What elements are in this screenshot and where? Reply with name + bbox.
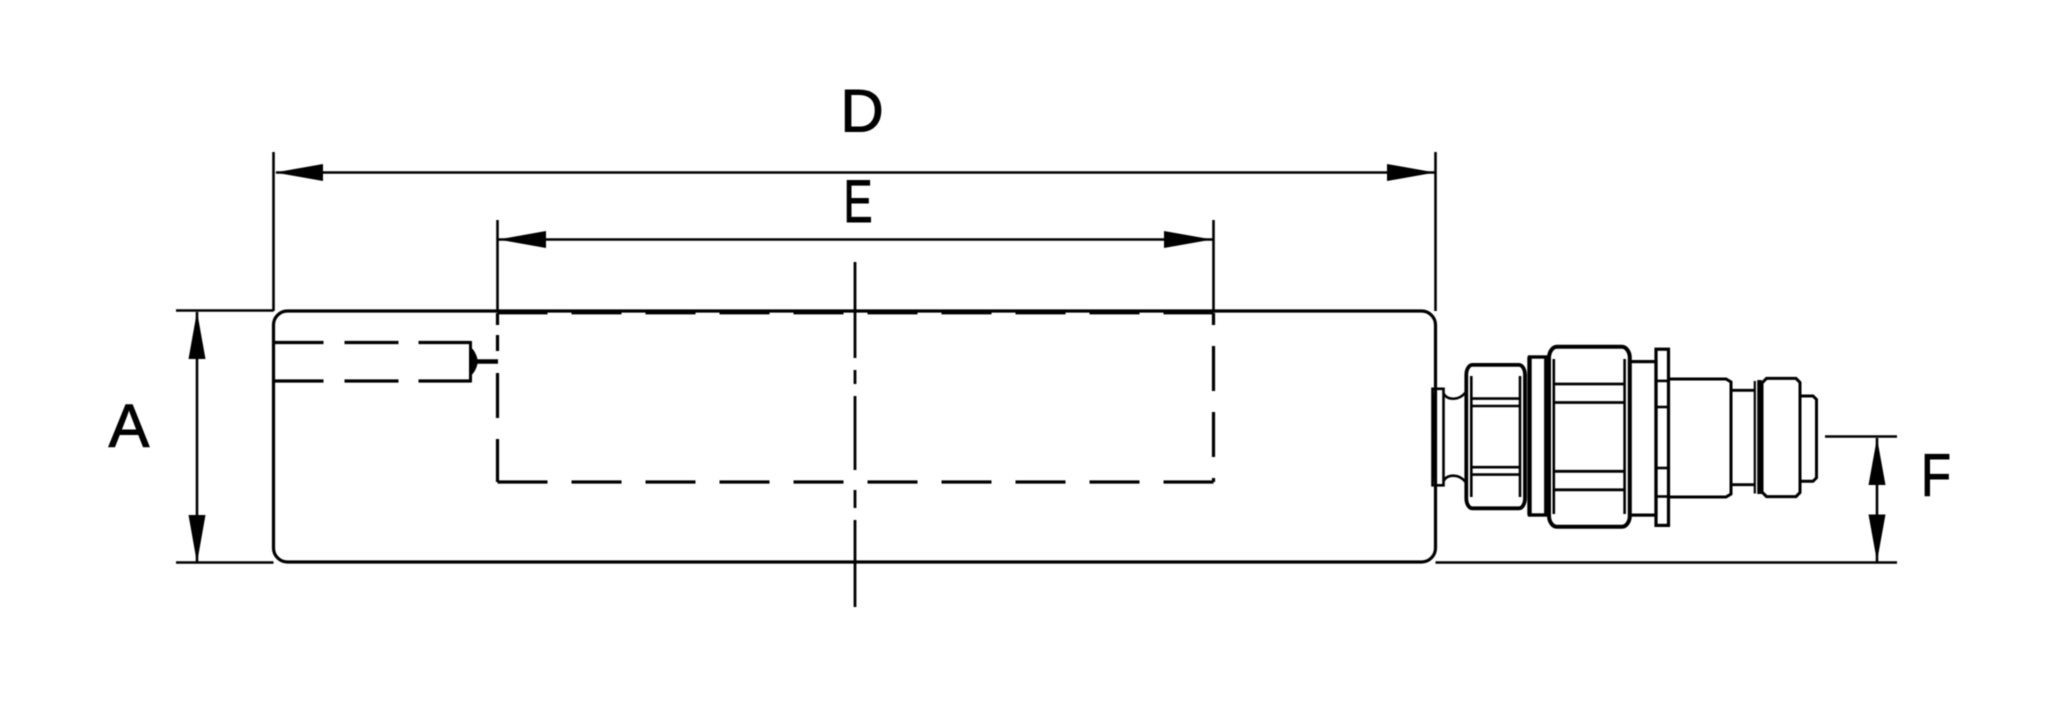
dimension E line	[498, 238, 1213, 241]
flange plate tick 2	[1656, 406, 1669, 409]
drill point cone	[471, 347, 478, 376]
dimension A line	[196, 312, 199, 562]
baseline extended left of body	[176, 561, 274, 564]
spacer cylinder	[1630, 362, 1657, 515]
cavity bottom hidden line	[498, 480, 1214, 483]
svg-text:F: F	[1921, 442, 1951, 509]
svg-text:A: A	[109, 392, 150, 460]
dimension E extension line left	[496, 220, 499, 311]
coupler neck lower curve	[1444, 476, 1466, 482]
tapped hole end face	[469, 341, 472, 383]
hex nut 1 outline	[1466, 365, 1525, 508]
dimension A top arrowhead	[189, 312, 206, 360]
hex nut 2 lower flat band	[1554, 470, 1625, 473]
cavity left hidden line	[496, 313, 499, 482]
plug end cap	[1800, 396, 1817, 481]
coupler neck upper curve	[1444, 393, 1466, 399]
dimension F line	[1876, 438, 1879, 562]
dimension D left arrowhead	[275, 164, 323, 181]
flange plate	[1656, 349, 1669, 525]
dimension F top arrowhead	[1869, 438, 1886, 485]
svg-text:D: D	[840, 78, 883, 145]
hex nut 2 right flat boundary	[1623, 359, 1626, 514]
tapped hole top hidden line	[274, 341, 471, 344]
flange plate tick 3	[1656, 467, 1669, 470]
release collar outline	[1762, 378, 1800, 496]
dimension D right arrowhead	[1387, 164, 1435, 181]
dimension A extension line top	[176, 309, 274, 312]
coupler barrel	[1669, 379, 1732, 497]
dimension E left arrowhead	[498, 231, 546, 248]
release collar front edge lines	[1754, 381, 1756, 494]
tapped hole bottom hidden line	[274, 379, 471, 382]
baseline extended right of body	[1436, 561, 1898, 564]
coupler groove bottom	[1731, 483, 1755, 486]
coupler groove top	[1731, 389, 1755, 392]
cylinder body outline	[274, 311, 1436, 562]
hex nut 1 left flat boundary	[1470, 376, 1473, 497]
dimension D line	[276, 171, 1435, 174]
hex nut 2 left flat boundary	[1553, 359, 1556, 514]
hex nut 2 upper flat band	[1554, 383, 1625, 386]
vertical centerline	[854, 262, 857, 607]
flange plate tick 4	[1656, 495, 1669, 498]
hex nut 1 upper flat band	[1471, 397, 1520, 400]
svg-text:E: E	[844, 168, 873, 235]
flange plate tick 1	[1656, 380, 1669, 383]
dimension F bottom arrowhead	[1869, 515, 1886, 562]
hex nut 2 outline	[1549, 347, 1630, 527]
dimension D extension line right	[1434, 152, 1437, 311]
pilot passage stub	[474, 359, 498, 364]
washer left edge	[1527, 357, 1531, 515]
hex nut 1 lower flat band	[1471, 466, 1520, 469]
cavity right hidden line	[1212, 313, 1215, 482]
cavity top hidden line	[498, 312, 1214, 315]
washer	[1530, 357, 1546, 515]
coupler boss silhouette	[1433, 389, 1444, 486]
dimension F top reference line	[1825, 435, 1897, 438]
dimension E right arrowhead	[1164, 231, 1212, 248]
coupler boss curvature arc	[1433, 392, 1435, 482]
dimension A bottom arrowhead	[189, 515, 206, 563]
dimension E extension line right	[1212, 220, 1215, 311]
dimension D extension line left	[272, 152, 275, 311]
hex nut 1 right flat boundary	[1519, 376, 1522, 497]
